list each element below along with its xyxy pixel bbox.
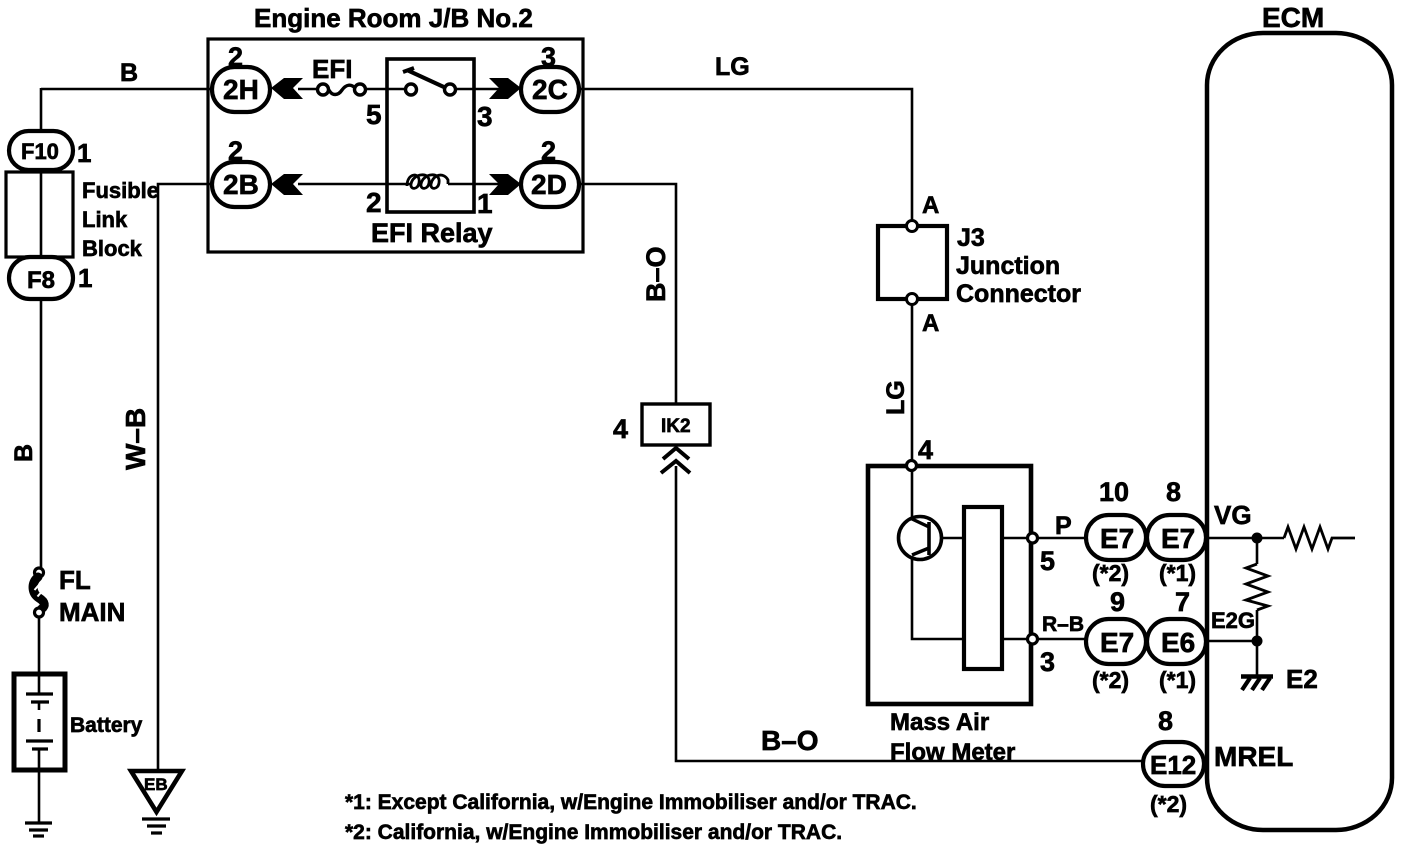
arrow into 2B xyxy=(271,174,303,195)
svg-text:*2: California, w/Engine Immob: *2: California, w/Engine Immobiliser and… xyxy=(345,821,842,844)
svg-text:MREL: MREL xyxy=(1214,741,1293,772)
connector 2D xyxy=(521,162,579,207)
fuse F10 xyxy=(9,131,73,170)
svg-text:VG: VG xyxy=(1214,500,1252,530)
arrow into 2D xyxy=(489,174,521,195)
svg-text:(*1): (*1) xyxy=(1159,560,1196,586)
wire B vertical xyxy=(40,298,43,569)
svg-text:EFI: EFI xyxy=(312,54,352,84)
wire E2G xyxy=(1207,640,1257,643)
connector 2B xyxy=(212,162,270,207)
junction block box xyxy=(208,39,583,252)
svg-text:1: 1 xyxy=(77,138,91,168)
resistor vertical xyxy=(1246,564,1268,610)
svg-text:B: B xyxy=(120,59,138,87)
connector IK2 xyxy=(642,404,710,445)
transistor hot wire element xyxy=(899,517,942,560)
wire sensor to node 5 xyxy=(1002,537,1026,540)
svg-text:EFI Relay: EFI Relay xyxy=(371,218,493,248)
relay coil xyxy=(407,175,448,189)
svg-text:F8: F8 xyxy=(27,267,55,294)
connector 2C xyxy=(521,67,579,112)
connector E12 xyxy=(1143,742,1204,786)
svg-text:B: B xyxy=(10,444,38,462)
wire to battery xyxy=(38,616,41,676)
svg-text:E2: E2 xyxy=(1286,664,1318,694)
svg-text:Engine Room J/B No.2: Engine Room J/B No.2 xyxy=(254,3,533,33)
svg-text:ECM: ECM xyxy=(1262,2,1324,33)
wire resistor to E2G dot xyxy=(1256,610,1259,641)
relay switch contact left xyxy=(406,84,417,95)
svg-text:1: 1 xyxy=(78,263,92,293)
svg-text:A: A xyxy=(922,310,939,337)
svg-text:8: 8 xyxy=(1158,706,1173,736)
wire VG dot down xyxy=(1256,538,1259,564)
wire switch to 2C xyxy=(455,88,499,91)
shield chevron 1 xyxy=(663,448,689,459)
ground under EB xyxy=(142,819,170,833)
svg-text:2H: 2H xyxy=(223,74,259,105)
wire B-O from 2D xyxy=(579,184,676,404)
wire transistor bottom xyxy=(912,559,964,639)
svg-text:1: 1 xyxy=(477,188,493,219)
svg-text:IK2: IK2 xyxy=(661,416,691,437)
connector E7 (*2) row1 xyxy=(1086,515,1146,560)
svg-text:Fusible: Fusible xyxy=(82,178,159,203)
svg-text:Link: Link xyxy=(82,207,128,232)
svg-text:E6: E6 xyxy=(1161,627,1195,658)
svg-text:FL: FL xyxy=(59,565,91,595)
svg-text:Mass Air: Mass Air xyxy=(890,709,989,736)
shield chevron 2 xyxy=(661,461,690,473)
wire 2B row to coil xyxy=(298,183,410,186)
svg-text:(*2): (*2) xyxy=(1092,667,1129,693)
svg-text:Flow Meter: Flow Meter xyxy=(890,739,1015,766)
fuse F8 xyxy=(9,257,73,299)
connector 2H xyxy=(212,67,270,112)
svg-text:(*2): (*2) xyxy=(1150,791,1187,817)
svg-text:7: 7 xyxy=(1175,587,1190,617)
svg-text:B–O: B–O xyxy=(761,725,819,756)
svg-text:J3: J3 xyxy=(957,224,985,252)
svg-text:3: 3 xyxy=(477,101,493,132)
svg-text:10: 10 xyxy=(1099,477,1129,507)
battery xyxy=(14,674,65,770)
wire R-B row xyxy=(1039,638,1090,641)
svg-text:Connector: Connector xyxy=(956,280,1081,308)
svg-text:4: 4 xyxy=(613,414,628,444)
svg-text:5: 5 xyxy=(366,99,382,130)
wire transistor to sensor xyxy=(941,537,964,540)
chassis ground E2 xyxy=(1241,677,1273,691)
node diamond R-B xyxy=(1028,634,1038,644)
wire to chassis ground xyxy=(1256,641,1259,675)
wire VG xyxy=(1207,537,1284,540)
mass air flow meter box xyxy=(868,466,1031,704)
svg-text:MAIN: MAIN xyxy=(59,597,125,627)
node diamond P xyxy=(1028,533,1038,543)
svg-text:2: 2 xyxy=(366,187,382,218)
svg-text:2D: 2D xyxy=(531,169,567,200)
svg-text:EB: EB xyxy=(144,775,168,794)
relay switch arm xyxy=(403,68,446,88)
relay switch contact right xyxy=(445,84,456,95)
svg-text:LG: LG xyxy=(882,380,910,415)
svg-text:4: 4 xyxy=(918,435,933,465)
svg-text:5: 5 xyxy=(1040,546,1055,576)
svg-text:E7: E7 xyxy=(1100,627,1134,658)
label FL MAIN xyxy=(59,565,125,627)
wire diamond to transistor xyxy=(911,465,914,518)
wire LG from 2C to J3 xyxy=(579,89,912,222)
svg-text:B–O: B–O xyxy=(641,246,671,302)
fusible link FL MAIN xyxy=(33,568,44,617)
svg-text:*1: Except California, w/Engin: *1: Except California, w/Engine Immobili… xyxy=(345,791,917,814)
junction connector J3 xyxy=(878,221,947,305)
svg-text:A: A xyxy=(922,192,939,219)
svg-text:2B: 2B xyxy=(223,169,259,200)
fusible link block box xyxy=(6,172,73,257)
svg-text:E7: E7 xyxy=(1161,523,1195,554)
connector E6 (*1) row2 xyxy=(1147,619,1206,664)
connector E7 (*1) row1 xyxy=(1147,515,1206,560)
svg-text:3: 3 xyxy=(1040,647,1055,677)
junction dot E2G xyxy=(1252,636,1263,647)
svg-text:E7: E7 xyxy=(1100,523,1134,554)
svg-text:Battery: Battery xyxy=(70,714,143,737)
wire fuse to relay xyxy=(364,88,406,91)
resistor horizontal xyxy=(1284,527,1355,549)
ECM box xyxy=(1207,33,1392,830)
wire B-O lower xyxy=(676,466,1147,761)
svg-text:LG: LG xyxy=(715,53,750,81)
label J3 Junction Connector xyxy=(956,224,1081,308)
svg-text:8: 8 xyxy=(1166,477,1181,507)
label Fusible Link Block xyxy=(82,178,159,261)
wire coil to 2D xyxy=(448,183,499,186)
svg-text:(*2): (*2) xyxy=(1092,560,1129,586)
label Mass Air Flow Meter xyxy=(890,709,1015,766)
wire B top horizontal xyxy=(41,88,213,91)
wire down to F10 xyxy=(40,88,43,134)
svg-text:E12: E12 xyxy=(1150,750,1196,780)
svg-text:9: 9 xyxy=(1110,587,1125,617)
relay box EFI xyxy=(387,59,474,212)
arrow into 2H xyxy=(271,78,303,99)
connector E7 (*2) row2 xyxy=(1086,619,1146,664)
wire to fuse EFI xyxy=(298,88,319,91)
sensor element rect xyxy=(964,507,1002,669)
arrow into 2C xyxy=(489,78,521,99)
svg-text:F10: F10 xyxy=(21,139,59,164)
node diamond MAF top xyxy=(907,461,917,471)
svg-text:Block: Block xyxy=(82,236,143,261)
svg-text:R–B: R–B xyxy=(1042,613,1084,636)
wire W-B from 2B xyxy=(158,184,213,771)
wire battery to ground xyxy=(38,770,41,822)
svg-text:Junction: Junction xyxy=(956,252,1060,280)
ground EB triangle xyxy=(131,771,182,812)
wire P row xyxy=(1039,537,1090,540)
junction dot VG xyxy=(1252,533,1263,544)
svg-text:2C: 2C xyxy=(532,74,568,105)
wire sensor to node 3 xyxy=(1002,638,1026,641)
svg-text:E2G: E2G xyxy=(1211,608,1255,633)
fuse EFI xyxy=(318,84,366,95)
svg-text:P: P xyxy=(1055,512,1072,540)
svg-text:W–B: W–B xyxy=(120,408,151,470)
svg-text:(*1): (*1) xyxy=(1159,667,1196,693)
ground under battery xyxy=(25,823,52,836)
wire LG vertical xyxy=(911,304,914,459)
